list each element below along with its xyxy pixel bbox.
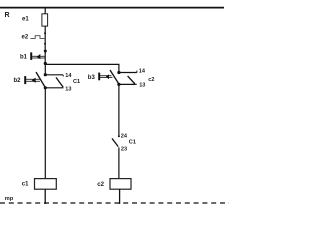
svg-text:b2: b2 xyxy=(14,78,22,84)
wire branch to right (node under b1) xyxy=(45,64,119,72)
wire rail to fuse xyxy=(44,8,46,15)
NC stop button b1 xyxy=(31,50,47,66)
svg-text:13: 13 xyxy=(139,83,145,89)
svg-text:mp: mp xyxy=(5,196,14,202)
holding contact c1 13-14 xyxy=(45,75,63,88)
coil c2 xyxy=(110,179,131,190)
svg-text:C1: C1 xyxy=(73,79,80,85)
svg-text:b1: b1 xyxy=(20,54,28,60)
wire coil c1 to mp xyxy=(44,189,46,204)
svg-text:R: R xyxy=(5,12,10,19)
coil c1 xyxy=(35,179,57,190)
wire sequence contact to coil c2 xyxy=(118,147,120,178)
rail R (top supply line) xyxy=(0,7,224,9)
svg-text:e1: e1 xyxy=(22,16,29,22)
overload relay contact e2 xyxy=(31,32,47,45)
NO start button b2 xyxy=(25,72,47,89)
holding contact c2 13-14 xyxy=(119,71,137,85)
fuse e1 xyxy=(42,14,48,26)
svg-text:C1: C1 xyxy=(129,140,136,146)
svg-text:c2: c2 xyxy=(97,182,104,188)
svg-text:c1: c1 xyxy=(22,182,29,188)
wire b2 to coil c1 xyxy=(44,88,46,179)
svg-text:23: 23 xyxy=(121,147,127,153)
NO start button b3 xyxy=(99,70,120,86)
svg-text:24: 24 xyxy=(121,133,128,139)
wire b3 down to sequence contact xyxy=(118,84,120,136)
svg-text:14: 14 xyxy=(139,69,146,75)
wire b1 to b2 xyxy=(44,64,46,75)
sequence contact C1 23-24 xyxy=(112,135,120,146)
wire fuse to b1 xyxy=(44,26,46,63)
rail mp (neutral, dashed) xyxy=(0,202,229,204)
svg-text:14: 14 xyxy=(65,73,72,79)
svg-text:c2: c2 xyxy=(148,77,154,83)
svg-text:b3: b3 xyxy=(88,75,96,81)
svg-text:13: 13 xyxy=(65,87,71,93)
wire coil c2 to mp xyxy=(119,189,121,204)
svg-text:e2: e2 xyxy=(22,34,29,40)
